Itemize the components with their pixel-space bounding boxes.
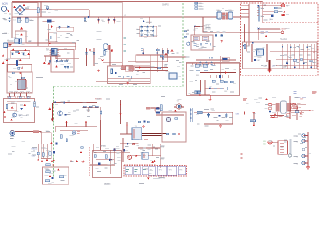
resistor chain startup b — [162, 56, 164, 59]
capacitor C40 vcc — [215, 34, 217, 37]
red arrow standby down — [52, 103, 54, 121]
warning triangles above ovp box — [41, 160, 78, 162]
wire output conn feed — [304, 132, 309, 166]
wire gate drive vertical — [120, 100, 122, 124]
capacitor sync row c — [211, 62, 213, 66]
warning triangle under T5 — [274, 113, 276, 115]
svg-text:T4: T4 — [177, 101, 179, 103]
pin pads row under choke — [11, 91, 31, 93]
wire aux row — [96, 79, 150, 82]
warning triangles inrush row — [2, 48, 30, 64]
capacitor fb box — [60, 135, 62, 138]
resistor sync row low b — [230, 81, 233, 83]
wire up-arrow taps secondary — [66, 121, 87, 127]
ground sense b — [46, 159, 48, 161]
warning triangle protection a — [11, 106, 13, 108]
ground sense d — [52, 164, 54, 166]
capacitor C5 inrush box — [11, 52, 13, 55]
regulator box U9 — [142, 152, 148, 159]
box pad strip 3 — [26, 96, 31, 99]
wire aux feed vertical — [103, 17, 122, 66]
box line-filter section — [15, 31, 26, 43]
svg-text:5Vsb: 5Vsb — [160, 147, 164, 149]
wire U9 out — [148, 155, 161, 157]
wire dashed box stubs — [241, 5, 250, 17]
capacitor out row a — [293, 59, 296, 61]
box pad strip 2 — [17, 96, 25, 99]
warning triangle near bridge — [13, 6, 16, 8]
wire aux out rows — [128, 68, 168, 71]
regulator box U8 — [278, 141, 288, 155]
capacitor pair relay feed — [141, 49, 146, 50]
wire sec aux row — [120, 138, 161, 168]
warning triangle standby — [48, 107, 51, 110]
capacitor sync row b — [205, 62, 207, 66]
wire startup row — [160, 56, 187, 58]
diode zener red crossed — [282, 14, 285, 16]
capacitor bulk C7 — [16, 60, 18, 66]
warning triangle startup — [171, 49, 174, 51]
inductor sec choke vertical — [190, 108, 192, 122]
warning triangle under U2 c — [55, 65, 58, 68]
node EMI junction — [88, 16, 90, 18]
svg-text:R61: R61 — [196, 75, 199, 77]
box aux supply section — [108, 66, 151, 84]
wire fb top row — [15, 132, 41, 145]
resistor divider row c — [95, 106, 98, 107]
diode arrow sync low — [200, 94, 202, 96]
box caps grid section — [140, 26, 157, 36]
aux parts row — [118, 76, 131, 79]
transistor Q10 dark — [269, 15, 273, 21]
diode arrow sync — [225, 71, 227, 73]
opto U6 in box — [166, 117, 170, 121]
inductor L2 dark block — [43, 20, 55, 23]
diode marks output row2 — [286, 62, 312, 68]
wire bridge output to EMI — [24, 1, 89, 17]
warning triangle ovp mid — [49, 175, 51, 177]
diode D5 — [56, 59, 58, 62]
ground sense a — [37, 159, 39, 161]
wire 12V reg in — [272, 141, 278, 143]
capacitor C41 vcc — [221, 34, 223, 37]
node plus blue T5 — [269, 110, 271, 112]
bridge rectifier BD1 — [15, 5, 30, 15]
wire standby branch — [44, 56, 79, 59]
extra labels row2 — [3, 4, 267, 40]
capacitor C71 right — [34, 102, 35, 107]
node hv start — [257, 5, 259, 7]
capacitor X2 film C1 — [13, 18, 21, 22]
box pad strip 1 — [7, 96, 15, 99]
wire T5 in/out — [270, 104, 306, 120]
wire T1 thick out — [142, 133, 166, 135]
resistor ovp row2 — [59, 176, 64, 178]
test point box TP3 — [167, 166, 177, 175]
diode output row marks — [282, 46, 308, 48]
resistor standby top — [156, 49, 159, 51]
capacitor out row b — [300, 59, 303, 61]
box EMI input section — [12, 2, 38, 17]
svg-text:SMPS: SMPS — [162, 3, 169, 6]
svg-text:RL1: RL1 — [46, 48, 49, 50]
resistor aux right a — [160, 55, 163, 57]
box pads left bottom contents — [9, 97, 30, 99]
red marks under q20 — [4, 116, 13, 121]
wire isolation dashed green vertical — [182, 3, 184, 86]
dense value labels layer — [3, 6, 314, 184]
capacitor sense a — [37, 152, 39, 155]
pwm lower parts row — [194, 43, 211, 46]
svg-text:T3: T3 — [258, 52, 260, 54]
ground vcc aux — [265, 35, 267, 37]
box pwm controller section — [191, 35, 213, 50]
node standby b — [63, 102, 65, 104]
wire sense verticals — [38, 144, 48, 158]
inductor L5 hatched — [197, 111, 202, 114]
capacitor red T5 below — [287, 114, 290, 117]
warning triangle fb — [50, 142, 52, 144]
transistor Q40 red circle — [127, 155, 131, 159]
node box corner blue — [243, 45, 244, 46]
varistor RV1 — [18, 67, 24, 70]
transistor circle left of pwm — [187, 42, 190, 45]
capacitor electrolytic C31 — [228, 10, 233, 19]
resistor sense dark — [53, 151, 55, 154]
diode startup — [165, 53, 167, 55]
ground aux left — [97, 70, 100, 73]
capacitor sync row a — [199, 62, 201, 66]
box sync section — [187, 63, 240, 96]
box aux sub — [126, 65, 133, 71]
transistor Q12 sw — [254, 59, 261, 62]
test point cells left — [125, 167, 149, 175]
node pwm vcc — [194, 26, 196, 28]
capacitor sync bottom a — [195, 91, 197, 94]
warning triangle filter a — [89, 49, 91, 51]
wire divider — [82, 107, 101, 120]
transistor fb circle Q30 — [10, 130, 15, 138]
label under tp row gray — [153, 177, 160, 179]
capacitor sec b — [225, 113, 228, 118]
svg-text:L6: L6 — [264, 143, 266, 145]
resistor sync row low a — [224, 81, 227, 83]
resistor stack left of pwm a — [184, 31, 187, 32]
capacitor C11 pair — [64, 66, 69, 69]
wire relay feed vertical — [143, 48, 157, 72]
label blue 24v top — [296, 97, 307, 99]
mark V red standby — [101, 59, 103, 61]
box relay driver section — [51, 50, 74, 73]
diode protection — [20, 108, 23, 110]
capacitor C70 — [6, 104, 7, 108]
sec side small cluster left — [80, 147, 85, 163]
resistor R50 — [274, 7, 281, 10]
svg-text:C82: C82 — [32, 156, 35, 158]
test point box TP4 — [178, 167, 186, 175]
node standby top — [157, 52, 158, 53]
ground output connector — [306, 166, 310, 169]
capacitor sec a — [207, 113, 210, 117]
warning triangle under U2 b — [48, 62, 51, 64]
resistor chain startup a — [162, 50, 164, 53]
transformer PFC choke T2 — [12, 72, 26, 89]
transistor mark vcc — [258, 28, 260, 30]
wire relay row top — [128, 55, 168, 62]
fuse F2 circle — [281, 4, 288, 7]
red marks above T5 right — [312, 92, 317, 94]
diode D12 sec — [132, 155, 141, 157]
capacitor gate — [100, 111, 102, 115]
wire aux diode out — [138, 147, 160, 149]
wire sec reg drop — [101, 112, 255, 150]
connector AC inlet J1 — [1, 3, 9, 13]
ground sync — [209, 95, 212, 101]
pwm sub box 1 — [193, 36, 199, 41]
node fb — [55, 142, 57, 144]
opto U5 — [169, 73, 177, 79]
inductor bead fb — [33, 131, 38, 133]
box relay RL2 — [136, 55, 151, 62]
wire dashed fb left — [89, 147, 91, 177]
capacitor filter mid a — [85, 48, 110, 66]
tl431 cluster contents — [94, 144, 125, 174]
transformer T5 line choke — [275, 101, 291, 113]
wire output box inner verticals — [243, 42, 247, 69]
ground vcc filter — [220, 40, 223, 43]
wire dashed sec bottom — [124, 164, 156, 166]
wire lower input net — [8, 24, 76, 50]
resistor left of opto box — [160, 105, 162, 111]
pad mark T5 bottom — [244, 111, 246, 114]
box rectifier lower section — [7, 65, 32, 73]
svg-text:C33 104: C33 104 — [204, 28, 211, 30]
diode gate b — [120, 114, 122, 116]
box inrush section — [11, 51, 30, 59]
transistor Q21 circle — [58, 111, 63, 116]
resistor R51 — [274, 11, 278, 13]
box thermistor section — [48, 33, 56, 42]
box dashed hot-cold top right — [241, 3, 319, 75]
svg-text:TP1: TP1 — [159, 170, 162, 172]
wire hv to fuse — [259, 5, 281, 7]
diode D3 snubber drop — [113, 17, 115, 24]
transformer T3 main — [252, 44, 268, 62]
wire 24v right rail — [288, 96, 310, 119]
box discharge section — [57, 27, 74, 31]
wire standby gate row — [53, 102, 97, 104]
star mark red — [51, 25, 53, 28]
diode arrow 24v end — [309, 110, 311, 112]
capacitor pair sync top — [210, 57, 213, 59]
capacitor bank grid — [141, 26, 155, 37]
label cluster above T5 — [294, 92, 297, 93]
node circle VCC — [281, 31, 284, 34]
label red under T5 — [279, 116, 283, 118]
capacitor discharge a — [58, 26, 60, 29]
common-mode choke L1 — [7, 39, 22, 45]
transformer standby primary symbol — [104, 44, 113, 52]
inductor sync dark bar — [222, 57, 229, 61]
parts opto box lower — [166, 133, 180, 135]
diode arrow aux — [139, 66, 141, 69]
wire vcc aux branch — [245, 24, 281, 42]
capacitor aux b — [115, 72, 116, 74]
snubber bead block — [146, 107, 150, 109]
transistor Q20 circle — [13, 113, 17, 117]
wire main bus y17 — [12, 16, 249, 18]
box driver lower section — [8, 104, 17, 111]
warning triangle protection b — [24, 104, 26, 106]
ground primary return thick — [267, 60, 271, 72]
thermistor parts — [50, 36, 52, 38]
warning triangle L1 area — [20, 27, 23, 30]
capacitor red 24v — [300, 111, 302, 114]
capacitor CY right edge — [37, 8, 39, 13]
thermistor NTC1 on bridge out — [46, 7, 48, 10]
box opto section — [162, 112, 186, 142]
extra labels sec aux — [122, 131, 159, 158]
wire left rail input boxes — [8, 43, 27, 97]
node pin stubs red — [306, 135, 307, 164]
transformer winding block — [222, 13, 229, 20]
resistor R11 — [65, 61, 68, 62]
capacitor electrolytic C30 — [216, 10, 221, 19]
warning triangle 24v rail — [253, 124, 255, 126]
wire sync dark row — [200, 72, 236, 74]
connector output pins — [296, 134, 305, 166]
pad marks right edge low — [241, 154, 243, 158]
resistor R4 inrush — [16, 51, 19, 52]
test point cell labels — [126, 170, 146, 172]
transistor Q22 dark — [65, 114, 67, 116]
ground under tp row — [147, 178, 150, 180]
test point box TP1 — [149, 167, 156, 176]
resistor hatched 24v — [292, 107, 298, 109]
red mark tp corner — [151, 161, 153, 163]
wire relay parts stubs — [46, 55, 66, 62]
parts above T1 — [138, 121, 149, 128]
resistor chain startup c — [167, 50, 169, 53]
parts fb small — [66, 139, 67, 142]
capacitor CX1 — [5, 18, 11, 22]
box protection section — [4, 99, 35, 123]
diode gate a — [120, 104, 122, 106]
wire sync long row — [187, 63, 240, 65]
capacitor C6 inrush box — [22, 52, 24, 55]
resistor R10 — [60, 61, 63, 62]
wire fb row — [40, 127, 97, 133]
red arrow T1 left — [126, 124, 128, 126]
ground sense c — [53, 159, 55, 161]
wire isolation dashed green lower — [53, 86, 55, 178]
wire HV rail right — [249, 1, 263, 46]
transistor Q1 main mosfet — [155, 107, 161, 113]
transistor bar sync — [219, 75, 221, 78]
pins column top right — [257, 6, 263, 22]
capacitor under bus a — [84, 17, 86, 22]
transistor Q31 circle — [72, 131, 80, 135]
red arrow mark hv — [284, 11, 286, 13]
box main output section — [243, 42, 318, 69]
warning triangle protection c — [3, 111, 5, 113]
node main xfmr top — [252, 42, 254, 44]
fuse ellipse T5 feed — [268, 103, 271, 105]
wire isolation dashed green horizontal — [54, 85, 184, 87]
output rectifier verticals — [270, 44, 317, 69]
svg-text:L2: L2 — [124, 15, 126, 17]
warning triangle T5 feed — [265, 98, 267, 100]
label teal aux feed — [123, 38, 126, 51]
node sec aux — [127, 143, 129, 145]
test point box TP2 — [157, 166, 167, 175]
ground U9 — [153, 160, 155, 162]
node standby a — [54, 102, 56, 104]
svg-text:CN3: CN3 — [236, 114, 240, 116]
capacitor out row c — [310, 60, 313, 62]
wire sync top row — [196, 56, 236, 80]
transformer aux winding block — [121, 66, 125, 70]
svg-text:C62: C62 — [224, 91, 227, 93]
warning triangle right of bridge — [23, 4, 25, 6]
resistor aux right b — [158, 67, 161, 69]
wire EMI box right edge — [121, 2, 123, 17]
wire T1 left — [120, 122, 132, 134]
warning triangle under U2 a — [43, 62, 46, 64]
capacitor X2 film C2 — [25, 18, 32, 22]
svg-text:GND: GND — [160, 159, 165, 161]
resistor in opto box — [175, 118, 178, 120]
fuse mark sec aux — [132, 143, 135, 145]
wire PFC out y32 — [203, 17, 281, 32]
resistor snubber stack R20 — [195, 2, 202, 9]
regulator fuse circle — [264, 141, 273, 146]
resistor divider row a — [83, 106, 86, 107]
capacitor sense b — [42, 153, 44, 156]
circle led cluster mid right — [270, 112, 278, 118]
transistor ovp dark — [51, 177, 53, 179]
capacitor T5 out right — [295, 110, 298, 113]
node relay feed — [142, 53, 144, 55]
label red 24v rows — [292, 104, 314, 116]
svg-text:T1: T1 — [135, 126, 137, 128]
wire pwm vcc — [195, 27, 203, 36]
wire dashed inner top right — [263, 22, 318, 24]
transformer drive pulse — [174, 101, 184, 112]
box dashed test points — [124, 166, 187, 177]
node sync mid — [209, 87, 211, 89]
fuse mark 24v top — [253, 112, 255, 114]
box PFC choke section — [7, 72, 32, 93]
wire left box edges — [12, 2, 38, 46]
sync box contents cluster — [195, 64, 228, 93]
resistor ovp row3 — [45, 180, 50, 182]
winding block aux left — [128, 66, 135, 71]
svg-text:TP3: TP3 — [179, 170, 182, 172]
wire secondary top — [194, 112, 233, 124]
box tl431 section — [93, 151, 122, 178]
wire tl431 rows — [90, 153, 130, 165]
node bus junction — [143, 21, 145, 23]
wire caps grid feed — [148, 17, 150, 24]
box ovp section — [43, 167, 69, 184]
wire sec return — [156, 114, 184, 116]
diode crossed 24v — [292, 103, 296, 105]
wire sync mid — [190, 80, 224, 95]
svg-text:TP2: TP2 — [169, 170, 172, 172]
box fb transistor section — [41, 133, 51, 159]
capacitor bar 24v rail — [250, 120, 256, 122]
